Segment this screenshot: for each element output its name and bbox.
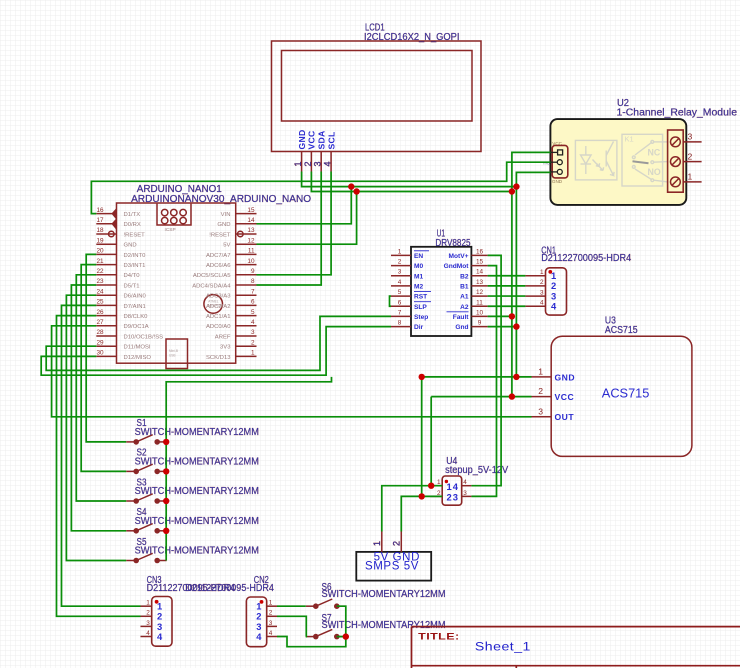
svg-text:D12/MISO: D12/MISO (124, 355, 152, 361)
svg-text:TITLE:: TITLE: (418, 630, 459, 641)
svg-text:15: 15 (247, 207, 255, 214)
svg-text:16: 16 (97, 207, 105, 214)
svg-text:SCK/D13: SCK/D13 (206, 355, 231, 361)
svg-text:OUT: OUT (555, 412, 575, 422)
svg-text:D3/INT1: D3/INT1 (124, 263, 146, 269)
svg-text:ADC5/SCL/A5: ADC5/SCL/A5 (193, 273, 231, 279)
svg-text:1: 1 (146, 600, 150, 607)
svg-text:13: 13 (476, 279, 484, 286)
svg-text:12: 12 (476, 289, 484, 296)
svg-text:B2: B2 (460, 273, 469, 280)
svg-text:!RESET: !RESET (209, 232, 231, 238)
svg-text:ADC2/A2: ADC2/A2 (206, 304, 231, 310)
svg-text:GND: GND (555, 372, 576, 382)
svg-text:GndMot: GndMot (444, 263, 470, 270)
svg-text:ACS715: ACS715 (602, 387, 650, 401)
svg-text:D21122700095-HDR4: D21122700095-HDR4 (541, 253, 632, 264)
svg-text:3: 3 (688, 132, 693, 142)
svg-text:USB: USB (169, 354, 176, 358)
svg-text:RST: RST (414, 294, 427, 301)
svg-text:7: 7 (251, 288, 255, 295)
svg-text:NO: NO (648, 167, 661, 177)
svg-text:1: 1 (251, 350, 255, 357)
svg-text:D2/INT0: D2/INT0 (124, 253, 147, 259)
svg-text:8: 8 (398, 320, 402, 327)
svg-text:SWITCH-MOMENTARY12MM: SWITCH-MOMENTARY12MM (135, 546, 259, 557)
svg-text:25: 25 (97, 299, 105, 306)
svg-text:3: 3 (313, 161, 323, 166)
svg-text:SWITCH-MOMENTARY12MM: SWITCH-MOMENTARY12MM (135, 457, 259, 468)
svg-text:3: 3 (398, 269, 402, 276)
svg-text:M0: M0 (414, 263, 423, 270)
svg-text:2: 2 (538, 386, 543, 396)
svg-text:D9/OC1A: D9/OC1A (124, 324, 149, 330)
svg-text:D1/TX: D1/TX (124, 212, 141, 218)
svg-text:Fault: Fault (453, 314, 470, 321)
svg-text:SWITCH-MOMENTARY12MM: SWITCH-MOMENTARY12MM (322, 620, 446, 631)
svg-text:B1: B1 (460, 284, 469, 291)
svg-text:27: 27 (97, 319, 105, 326)
svg-text:17: 17 (97, 217, 105, 224)
svg-text:VCC: VCC (307, 130, 317, 149)
svg-text:11: 11 (248, 248, 255, 255)
svg-text:VCC: VCC (555, 392, 575, 402)
svg-text:VIN: VIN (221, 212, 231, 218)
svg-text:I2CLCD16X2_N_GOPI: I2CLCD16X2_N_GOPI (364, 32, 460, 43)
svg-text:ADC3/A3: ADC3/A3 (206, 294, 231, 300)
svg-text:4: 4 (256, 631, 262, 642)
svg-text:ADC4/SDA/A4: ADC4/SDA/A4 (192, 283, 231, 289)
svg-text:20: 20 (97, 248, 105, 255)
svg-text:NC: NC (648, 147, 661, 157)
svg-text:SCL: SCL (326, 131, 336, 149)
svg-text:26: 26 (97, 309, 105, 316)
svg-text:4: 4 (463, 479, 467, 486)
svg-text:MotV+: MotV+ (449, 253, 469, 260)
svg-text:5V: 5V (223, 243, 230, 249)
svg-text:SLP: SLP (414, 304, 427, 311)
svg-text:4: 4 (540, 299, 544, 306)
svg-text:3V3: 3V3 (220, 345, 231, 351)
svg-text:10: 10 (247, 258, 255, 265)
svg-text:6: 6 (251, 299, 255, 306)
svg-text:5: 5 (251, 309, 255, 316)
svg-text:D10/OC1B/!SS: D10/OC1B/!SS (124, 334, 164, 340)
svg-text:4: 4 (551, 300, 557, 311)
svg-text:2: 2 (146, 610, 150, 617)
svg-text:6: 6 (398, 299, 402, 306)
svg-text:SWITCH-MOMENTARY12MM: SWITCH-MOMENTARY12MM (135, 486, 259, 497)
svg-text:Gnd: Gnd (455, 324, 468, 331)
svg-text:23: 23 (97, 278, 105, 285)
svg-text:3: 3 (146, 620, 150, 627)
svg-text:3: 3 (538, 406, 543, 416)
svg-text:29: 29 (97, 339, 105, 346)
svg-text:4: 4 (251, 319, 255, 326)
svg-text:2: 2 (303, 161, 313, 166)
svg-text:12: 12 (247, 237, 255, 244)
svg-text:GND: GND (217, 222, 230, 228)
svg-text:3: 3 (540, 289, 544, 296)
svg-text:3: 3 (463, 490, 467, 497)
svg-text:28: 28 (97, 329, 105, 336)
svg-text:4: 4 (269, 630, 273, 637)
svg-text:Dir: Dir (414, 324, 424, 331)
svg-text:A1: A1 (460, 294, 469, 301)
svg-text:4: 4 (453, 481, 459, 492)
svg-text:ADC7/A7: ADC7/A7 (206, 253, 231, 259)
svg-text:18: 18 (97, 227, 105, 234)
svg-text:SDA: SDA (316, 130, 326, 149)
svg-text:SWITCH-MOMENTARY12MM: SWITCH-MOMENTARY12MM (135, 516, 259, 527)
svg-text:4: 4 (146, 630, 150, 637)
svg-text:K1: K1 (625, 135, 634, 144)
svg-text:14: 14 (476, 269, 484, 276)
svg-text:D4/T0: D4/T0 (124, 273, 141, 279)
svg-text:21: 21 (97, 258, 105, 265)
svg-text:ACS715: ACS715 (605, 325, 638, 336)
svg-text:7: 7 (398, 309, 402, 316)
svg-text:15: 15 (476, 259, 484, 266)
svg-text:22: 22 (97, 268, 105, 275)
svg-text:ADC1/A1: ADC1/A1 (206, 314, 231, 320)
svg-text:30: 30 (97, 350, 105, 357)
svg-text:14: 14 (247, 217, 255, 224)
svg-text:D0/RX: D0/RX (124, 222, 141, 228)
svg-text:19: 19 (97, 237, 105, 244)
svg-text:D7/AIN1: D7/AIN1 (124, 304, 146, 310)
svg-text:CN2: CN2 (254, 575, 269, 586)
svg-text:4: 4 (323, 161, 333, 166)
svg-text:!RESET: !RESET (124, 232, 146, 238)
svg-text:A2: A2 (460, 304, 469, 311)
svg-text:1: 1 (372, 541, 382, 546)
svg-text:Mini-B: Mini-B (169, 349, 178, 353)
svg-text:M2: M2 (414, 284, 423, 291)
svg-text:2: 2 (391, 541, 401, 546)
svg-text:2: 2 (251, 339, 255, 346)
svg-text:D6/AIN0: D6/AIN0 (124, 294, 147, 300)
svg-text:SMPS 5V: SMPS 5V (365, 560, 419, 572)
svg-text:1: 1 (293, 161, 303, 166)
svg-text:Sheet_1: Sheet_1 (475, 642, 531, 654)
svg-text:1: 1 (540, 269, 544, 276)
svg-text:ICSP: ICSP (165, 227, 176, 233)
svg-text:3: 3 (251, 329, 255, 336)
svg-text:1: 1 (269, 600, 273, 607)
svg-text:SWITCH-MOMENTARY12MM: SWITCH-MOMENTARY12MM (135, 427, 259, 438)
svg-text:EN: EN (414, 253, 423, 260)
svg-text:1-Channel_Relay_Module: 1-Channel_Relay_Module (617, 108, 738, 119)
svg-text:24: 24 (97, 288, 105, 295)
svg-text:2: 2 (398, 259, 402, 266)
svg-text:4: 4 (157, 631, 163, 642)
svg-text:3: 3 (453, 492, 458, 503)
svg-text:9: 9 (251, 268, 255, 275)
svg-text:Step: Step (414, 314, 428, 321)
svg-text:GND: GND (124, 243, 137, 249)
svg-text:2: 2 (688, 151, 693, 161)
svg-text:GND: GND (552, 179, 563, 184)
svg-text:SWITCH-MOMENTARY12MM: SWITCH-MOMENTARY12MM (322, 589, 446, 600)
svg-text:ADC0/A0: ADC0/A0 (206, 324, 231, 330)
svg-text:13: 13 (247, 227, 255, 234)
svg-text:10: 10 (476, 309, 484, 316)
svg-text:AREF: AREF (215, 334, 231, 340)
svg-text:ADC6/A6: ADC6/A6 (206, 263, 231, 269)
svg-text:9: 9 (478, 320, 482, 327)
svg-text:1: 1 (398, 248, 402, 255)
svg-text:D8/CLK0: D8/CLK0 (124, 314, 149, 320)
svg-text:1: 1 (688, 172, 693, 182)
svg-text:M1: M1 (414, 273, 423, 280)
svg-text:2: 2 (269, 610, 273, 617)
svg-text:2: 2 (447, 492, 452, 503)
svg-text:D11/MOSI: D11/MOSI (124, 345, 151, 351)
svg-text:1: 1 (538, 366, 543, 376)
svg-text:8: 8 (251, 278, 255, 285)
svg-text:5: 5 (398, 289, 402, 296)
svg-text:VCC: VCC (552, 141, 562, 146)
svg-text:GND: GND (297, 130, 307, 150)
svg-text:D5/T1: D5/T1 (124, 283, 140, 289)
svg-text:16: 16 (476, 248, 484, 255)
svg-text:stepup_5V-12V: stepup_5V-12V (445, 465, 508, 476)
svg-text:3: 3 (269, 620, 273, 627)
svg-text:2: 2 (540, 279, 544, 286)
svg-text:11: 11 (476, 299, 483, 306)
svg-text:4: 4 (398, 279, 402, 286)
